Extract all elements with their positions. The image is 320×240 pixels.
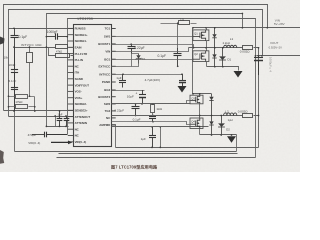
- resistor R5 17k: [16, 105, 28, 109]
- U1 left pin names: [75, 27, 91, 144]
- wire TG1 to gate: [112, 36, 193, 38]
- wire third top loop: [47, 14, 243, 127]
- capacitor C2 10nF ITH: [11, 47, 18, 82]
- wire BOOST1 branch: [112, 44, 132, 46]
- gnd1 joints: [214, 66, 216, 68]
- U1 left pin stubs: [68, 28, 73, 141]
- wire bus SW2: [112, 103, 191, 105]
- drain joints1: [192, 27, 194, 29]
- wire bottom bus2: [59, 153, 238, 155]
- resistor Rs1 sense: [243, 46, 253, 50]
- wire filter row: [15, 47, 74, 49]
- wire divider top row: [9, 96, 35, 98]
- transistor Q2: [193, 51, 209, 62]
- capacitor C3 5.1nF: [11, 83, 18, 112]
- capacitor C9 0.22uF: [128, 44, 136, 53]
- wire VOUT output: [257, 55, 301, 57]
- C9 joint: [130, 43, 132, 45]
- divider joints: [8, 95, 10, 97]
- C4 joints: [46, 36, 48, 38]
- artifact mark lower: [0, 150, 4, 164]
- wire Q1 drain lead: [206, 28, 208, 30]
- wire gnd2 right leg: [236, 135, 238, 152]
- wire vertical x160: [160, 127, 162, 148]
- wire RUN/SS bus: [9, 28, 74, 30]
- diode D2a body Q3: [209, 94, 213, 116]
- wire drain bus2: [193, 93, 212, 95]
- R6 joint: [177, 22, 179, 24]
- wire BOOST1 cont: [132, 45, 194, 48]
- wire bus y126: [112, 126, 209, 128]
- wire divider bottom row: [9, 106, 35, 108]
- wire AMPMD drop: [112, 125, 116, 148]
- wire mid bottom bus: [116, 147, 259, 149]
- wire R2 drop: [29, 48, 31, 53]
- wire left bus VOS+: [4, 110, 74, 112]
- wire sense drop: [55, 117, 57, 127]
- wire 1ohm row: [161, 23, 197, 25]
- wire SW1 to node: [112, 48, 189, 52]
- ground G1: [178, 86, 187, 93]
- wire drain drop Q3: [192, 28, 194, 94]
- diode D1a body Q1: [212, 28, 216, 48]
- diode D2b body Q4: [209, 116, 213, 136]
- wire gate Q4: [112, 122, 191, 125]
- gnd2 joints: [211, 134, 213, 136]
- wire BG2 stub branch: [112, 90, 145, 92]
- U1 right pin stubs: [112, 29, 116, 126]
- resistor R3 47k: [56, 54, 70, 58]
- transistor Q4: [190, 118, 203, 129]
- capacitor C11 4.7uF: [179, 74, 186, 86]
- wire INTVCC filter drop: [177, 24, 179, 49]
- node2 joints: [199, 115, 201, 117]
- capacitor C1 0.1uF soft-start: [11, 28, 19, 47]
- wire left bus SENSE2: [9, 116, 74, 118]
- wire fourth top loop: [68, 19, 256, 158]
- wire divider right leg: [34, 97, 36, 111]
- drain joints2: [192, 93, 194, 95]
- diode D3 zener: [136, 54, 142, 64]
- C15 joints: [151, 126, 153, 128]
- transistor Q3: [190, 95, 203, 104]
- wire Q2 source lead: [206, 62, 208, 67]
- resistor R4 17k: [16, 95, 28, 99]
- capacitor C4 100pF: [46, 33, 67, 39]
- wire bottom bus1: [15, 151, 237, 153]
- wire VIN rail: [193, 27, 301, 29]
- resistor R1 10ohm: [56, 45, 68, 49]
- capacitor C6 1uF: [64, 116, 70, 126]
- diode D2 schottky: [218, 116, 225, 136]
- C13 joints: [135, 103, 137, 105]
- diode D1b body Q2: [212, 48, 216, 67]
- wire Q3 source lead: [199, 104, 201, 119]
- resistor R6 1ohm: [179, 21, 190, 25]
- wire second loop to VOUT: [9, 10, 263, 117]
- wire C1 rail down: [14, 48, 16, 152]
- capacitor C7 470pF: [32, 132, 67, 138]
- wire INTVCC row: [112, 74, 183, 76]
- capacitor C13 0.22uF: [132, 104, 140, 116]
- wire gnd bus2: [200, 134, 237, 136]
- inductor L2: [224, 113, 237, 116]
- capacitor C8 0.1uF: [174, 48, 182, 66]
- resistor R2 vertical: [27, 53, 33, 63]
- Rs2 joint: [258, 115, 260, 117]
- capacitor C14 0.1uF: [149, 116, 156, 122]
- Cout joints: [258, 55, 260, 57]
- resistor R7 1k: [151, 105, 155, 113]
- wire switch node1: [189, 47, 259, 49]
- wire R7 bottom: [152, 113, 154, 116]
- wire caps bus: [47, 126, 69, 128]
- wire R7 top: [152, 104, 154, 105]
- C14 joints: [152, 103, 154, 105]
- diode D1 schottky: [219, 48, 226, 67]
- capacitor Cout bank: [254, 56, 263, 75]
- transistor Q1: [193, 30, 209, 41]
- R1 wire joints: [13, 46, 15, 48]
- wire bottom bus3: [57, 157, 256, 159]
- inductor L1: [224, 45, 237, 48]
- wire Q4 source lead: [199, 129, 201, 135]
- node1 joints: [205, 47, 207, 49]
- ground G3: [227, 136, 236, 143]
- Rs1 joint: [258, 47, 260, 49]
- wire Q3 drain lead: [199, 94, 201, 96]
- wire Q1 source lead: [206, 41, 208, 51]
- wire BG1 to gate: [112, 59, 193, 61]
- wire below R2: [29, 63, 31, 97]
- C5 C6 joints: [59, 110, 61, 112]
- resistor Rs2 sense: [243, 114, 253, 118]
- wire to D3: [112, 54, 139, 67]
- U1 right pin names: [98, 27, 111, 128]
- wire VOUT rail: [258, 48, 260, 148]
- capacitor C15 1uF: [149, 127, 156, 148]
- wire bus y126: [112, 126, 185, 128]
- capacitor C12 10uF: [139, 90, 146, 104]
- wire gnd bus1: [207, 67, 239, 71]
- capacitor C10 1uF: [119, 74, 126, 87]
- wire D3 bottom: [132, 64, 139, 67]
- artifact mark upper: [0, 37, 5, 45]
- ground G2: [234, 71, 243, 78]
- capacitor C5 1uF: [57, 111, 63, 126]
- wire EAIN row: [49, 48, 74, 56]
- wire VID arrow: [51, 141, 69, 143]
- C10 C11 joints: [122, 73, 124, 75]
- wire VIN top loop: [4, 5, 268, 111]
- op-amp U1 LTC1709 body: [74, 25, 112, 147]
- wire switch node2: [112, 115, 259, 117]
- wire gate Q3: [112, 101, 191, 104]
